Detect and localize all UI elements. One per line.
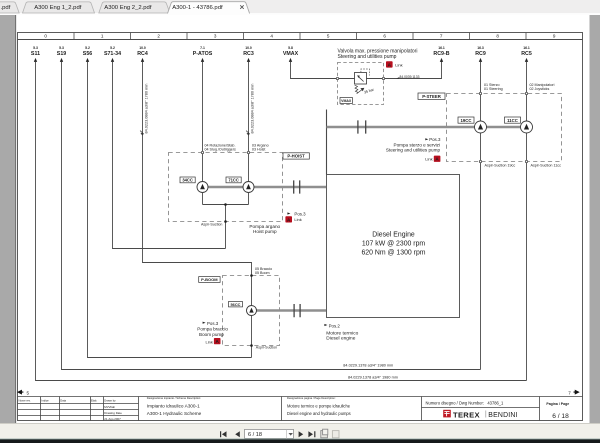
node RC9 label <box>475 46 486 57</box>
svg-text:05 Boom: 05 Boom <box>255 271 270 275</box>
svg-text:RC9-B: RC9-B <box>433 51 449 57</box>
svg-text:.pdf: .pdf <box>1 5 11 11</box>
svg-text:Elab.: Elab. <box>91 399 97 403</box>
svg-text:S19: S19 <box>57 51 66 57</box>
leader arrow relief hose <box>396 77 399 79</box>
svg-text:1: 1 <box>101 34 104 39</box>
link icon steering <box>425 156 440 162</box>
VMAX tag box <box>340 98 352 104</box>
svg-text:Pos.3: Pos.3 <box>207 321 219 326</box>
relief valve spring <box>355 85 359 93</box>
wire RC4 boom delivery <box>143 62 252 306</box>
tab 4 active <box>168 2 250 14</box>
hose leader tick RC4 <box>140 131 143 135</box>
pump 19CC tag <box>458 117 474 123</box>
steering pos3 note <box>386 137 441 152</box>
svg-text:Drawn by: Drawn by <box>104 399 116 403</box>
engine pos2 note <box>324 323 358 341</box>
tab 3 <box>99 2 170 13</box>
node RC9 arrow <box>479 58 482 62</box>
svg-text:Aspir-Suction: Aspir-Suction <box>201 223 222 227</box>
svg-text:P-HOIST: P-HOIST <box>287 154 305 159</box>
node RC4 label <box>137 46 148 57</box>
svg-text:Diesel Engine: Diesel Engine <box>372 231 415 238</box>
svg-text:Impianto idraulico A300-1: Impianto idraulico A300-1 <box>147 404 200 409</box>
svg-text:P-BOOM: P-BOOM <box>201 277 218 282</box>
svg-text:84.0229.1378 a3/4" 1980 mm: 84.0229.1378 a3/4" 1980 mm <box>348 376 398 380</box>
svg-text:6: 6 <box>383 34 386 39</box>
boom pos3 note <box>197 321 228 337</box>
wire VMAX relief line <box>291 62 442 79</box>
P-BOOM dashed box <box>223 276 280 346</box>
pump 11CC tag <box>505 117 521 123</box>
hoist tandem shaft between pumps <box>208 186 243 188</box>
wire 11CC suction <box>526 133 528 381</box>
svg-text:16.1: 16.1 <box>438 46 445 50</box>
pump group labels 04 <box>205 143 237 151</box>
svg-text:21.Ago.2007: 21.Ago.2007 <box>104 417 121 421</box>
wire S71-34 suction to hoist pumps <box>113 62 226 249</box>
node P-ATOS arrow <box>201 58 204 62</box>
link icon VMAX <box>386 61 403 67</box>
svg-text:7: 7 <box>440 34 443 39</box>
scheme description cell <box>147 396 202 416</box>
toolbar view icons <box>321 429 339 438</box>
page description cell <box>287 396 351 416</box>
svg-text:Diesel engine: Diesel engine <box>326 336 355 342</box>
wire 19CC suction <box>480 133 482 370</box>
hoist suction manifold <box>203 193 249 249</box>
pump 34CC <box>197 182 208 193</box>
hose leader tick RC3 <box>246 131 249 135</box>
svg-text:84.0039.1133: 84.0039.1133 <box>400 75 420 79</box>
node circle relief right <box>382 77 384 79</box>
pump 11CC <box>521 121 533 133</box>
svg-text:10.0: 10.0 <box>139 46 146 50</box>
svg-text:Diesel engine and hydraulic pu: Diesel engine and hydraulic pumps <box>287 411 351 416</box>
node RC4 arrow <box>141 58 144 62</box>
svg-text:11CC: 11CC <box>507 118 518 123</box>
svg-text:Link: Link <box>294 217 301 222</box>
svg-text:Designazione pagina / Page Des: Designazione pagina / Page Description: <box>287 396 336 400</box>
svg-text:Link: Link <box>206 339 213 344</box>
boom pump shaft <box>257 309 327 311</box>
tab bar background <box>0 0 600 13</box>
svg-text:7.1: 7.1 <box>200 46 205 50</box>
wire RC5 to 11CC pump <box>526 62 528 122</box>
page number cell <box>546 402 569 420</box>
node S11 arrow <box>34 58 37 62</box>
svg-text:Aspir-Suction 19cc: Aspir-Suction 19cc <box>485 163 516 167</box>
node RC5 label <box>521 46 532 57</box>
svg-text:84.0223.0884 a3/8" 1780 mm: 84.0223.0884 a3/8" 1780 mm <box>251 84 255 134</box>
wire S11 suction bus <box>36 62 527 381</box>
node circle P-STEER bottom left <box>479 160 481 162</box>
svg-text:3: 3 <box>214 34 217 39</box>
bottom dark strip <box>0 439 600 443</box>
svg-text:VMAX: VMAX <box>341 99 352 103</box>
svg-text:5.3: 5.3 <box>59 46 64 50</box>
node S71-34 label <box>104 46 121 57</box>
svg-text:03 Hoist: 03 Hoist <box>252 148 265 152</box>
svg-text:6 / 18: 6 / 18 <box>248 432 262 438</box>
svg-text:Numero disegno / Dwg Number:: Numero disegno / Dwg Number: 43786_1 <box>426 401 505 406</box>
node S71-34 arrow <box>111 58 114 62</box>
node S56 label <box>83 46 92 57</box>
wire RC9 to 19CC pump <box>480 62 482 122</box>
svg-text:16.1: 16.1 <box>523 46 530 50</box>
steering pump shaft <box>327 126 521 128</box>
sheet back arrow 5 <box>18 390 29 395</box>
P-BOOM tag box <box>199 277 220 283</box>
svg-text:RC4: RC4 <box>137 51 148 57</box>
link icon boom <box>206 338 221 344</box>
junction boom suction <box>250 344 253 347</box>
toolbar next-page button <box>299 431 304 437</box>
hoist pos3 note <box>287 212 306 217</box>
relief valve pilot dashes <box>361 69 370 76</box>
wire S19 suction bus <box>62 62 481 370</box>
svg-text:84.0223.0884 a3/8" 1780 mm: 84.0223.0884 a3/8" 1780 mm <box>144 84 148 134</box>
svg-text:A300 Eng 2_2.pdf: A300 Eng 2_2.pdf <box>104 5 152 11</box>
pump 71CC tag <box>226 177 241 183</box>
svg-text:Aspir-Suction: Aspir-Suction <box>256 346 277 350</box>
svg-text:S11: S11 <box>31 51 40 57</box>
svg-text:6 / 18: 6 / 18 <box>552 413 569 420</box>
junction boom supply <box>250 274 253 277</box>
svg-text:01 Steering: 01 Steering <box>484 87 503 91</box>
svg-text:S71-34: S71-34 <box>104 51 121 57</box>
hoist shaft coupling <box>294 180 300 193</box>
svg-text:Data: Data <box>60 399 66 403</box>
svg-text:RC5: RC5 <box>521 51 532 57</box>
node circle P-STEER top left <box>479 92 481 94</box>
svg-text:10.0: 10.0 <box>245 46 252 50</box>
svg-text:5.3: 5.3 <box>33 46 38 50</box>
svg-text:71CC: 71CC <box>228 178 239 183</box>
hoist pump shaft <box>254 186 326 188</box>
svg-text:4: 4 <box>270 34 273 39</box>
node VMAX label <box>283 46 299 57</box>
pump group labels 03 <box>252 143 269 151</box>
svg-text:0: 0 <box>44 34 47 39</box>
svg-text:84.0229.1378 a3/4" 1980 mm: 84.0229.1378 a3/4" 1980 mm <box>343 364 393 368</box>
node circle P-HOIST top left <box>201 151 203 153</box>
svg-text:A300-1 - 43786.pdf: A300-1 - 43786.pdf <box>172 5 223 11</box>
pump 19CC <box>475 121 487 133</box>
svg-text:A300 Eng 1_2.pdf: A300 Eng 1_2.pdf <box>34 5 82 11</box>
hoist pump note <box>249 224 280 234</box>
node S11 label <box>31 46 40 57</box>
pump 71CC <box>243 182 254 193</box>
P-HOIST dashed box <box>169 153 283 222</box>
node S19 arrow <box>60 58 63 62</box>
ruler ticks <box>74 33 526 40</box>
svg-text:19CC: 19CC <box>461 118 472 123</box>
node circle P-STEER top right <box>525 92 527 94</box>
node RC9-B arrow <box>440 58 443 62</box>
svg-text:Nome rev.: Nome rev. <box>19 399 31 403</box>
revision table values <box>104 405 122 421</box>
svg-text:Drawing Date: Drawing Date <box>104 411 122 415</box>
pump 56CC tag <box>229 302 243 307</box>
sheet next arrow 7 <box>568 390 578 395</box>
svg-text:5: 5 <box>27 390 30 395</box>
svg-text:Steering and utilities pump: Steering and utilities pump <box>386 148 441 153</box>
svg-text:TEREX: TEREX <box>453 410 480 419</box>
bottom toolbar <box>0 423 600 438</box>
steering shaft coupling <box>358 120 366 133</box>
terex bendini logo <box>443 410 517 420</box>
svg-text:56CC: 56CC <box>231 302 241 307</box>
P-STEER tag box <box>418 93 445 99</box>
svg-text:P-ATOS: P-ATOS <box>193 51 213 57</box>
svg-text:Hoist pump: Hoist pump <box>253 229 277 234</box>
svg-text:BENDINI: BENDINI <box>488 412 517 419</box>
wire P-ATOS to 34CC pump <box>202 62 204 182</box>
toolbar last-page button <box>308 431 315 437</box>
node P-ATOS label <box>193 46 213 57</box>
toolbar page field <box>245 429 294 438</box>
wire RC3 to 71CC pump <box>248 62 250 182</box>
svg-text:A300-1 Hydraulic Scheme: A300-1 Hydraulic Scheme <box>147 411 202 416</box>
svg-text:Steering and utilities pump: Steering and utilities pump <box>338 54 397 60</box>
node RC5 arrow <box>525 58 528 62</box>
relief valve text <box>338 49 418 61</box>
svg-text:7: 7 <box>568 390 571 395</box>
svg-text:16.3: 16.3 <box>477 46 484 50</box>
engine M1 <box>327 175 460 318</box>
svg-text:Pagina / Page: Pagina / Page <box>546 402 569 406</box>
node RC3 arrow <box>247 58 250 62</box>
relief valve V1 body <box>355 73 367 85</box>
wire S56 suction bus to boom pump <box>88 62 252 358</box>
P-HOIST tag box <box>283 153 309 159</box>
svg-text:Motore termico e pompe idrauli: Motore termico e pompe idrauliche <box>287 404 351 409</box>
P-STEER dashed box <box>447 94 562 162</box>
relief valve dashed box VMAX <box>338 63 384 105</box>
node circle P-HOIST bottom <box>224 220 227 223</box>
svg-text:8: 8 <box>496 34 499 39</box>
svg-text:9: 9 <box>553 34 556 39</box>
junction hoist manifold <box>224 203 227 206</box>
ruler numbers <box>44 34 556 39</box>
relief valve setting arrow <box>357 88 364 94</box>
node VMAX arrow <box>289 58 292 62</box>
svg-text:04 Slug./Outriggers: 04 Slug./Outriggers <box>205 148 237 152</box>
svg-text:34CC: 34CC <box>182 178 193 183</box>
svg-text:107 kW @ 2300 rpm: 107 kW @ 2300 rpm <box>362 241 426 248</box>
engine shaft vertical <box>326 110 328 175</box>
pump group labels 05 <box>255 267 272 275</box>
svg-text:5: 5 <box>327 34 330 39</box>
svg-text:MVVitali: MVVitali <box>104 405 115 409</box>
svg-text:Designazione impianto / Scheme: Designazione impianto / Scheme Descripti… <box>147 396 201 400</box>
svg-text:RC9: RC9 <box>475 51 486 57</box>
svg-text:P-STEER: P-STEER <box>422 94 442 99</box>
toolbar first-page button <box>220 431 227 437</box>
boom shaft coupling <box>294 304 300 317</box>
svg-text:VMAX: VMAX <box>283 51 299 57</box>
svg-text:Pos.3: Pos.3 <box>429 137 441 142</box>
title block frame <box>18 397 583 421</box>
svg-text:S56: S56 <box>83 51 92 57</box>
svg-text:Pompa braccio: Pompa braccio <box>197 327 228 332</box>
svg-text:02 Joysticks: 02 Joysticks <box>530 87 550 91</box>
pump group labels 01 sterzo <box>484 83 503 91</box>
node RC3 label <box>243 46 254 57</box>
svg-text:Motore termico: Motore termico <box>326 330 358 336</box>
toolbar prev-page button <box>235 431 240 437</box>
svg-text:Pos.2: Pos.2 <box>329 323 341 328</box>
svg-text:Indice: Indice <box>42 399 50 403</box>
svg-text:620 Nm @ 1300 rpm: 620 Nm @ 1300 rpm <box>361 250 425 257</box>
node circle P-HOIST top right <box>247 151 249 153</box>
svg-text:Pompa argano: Pompa argano <box>249 224 280 229</box>
svg-text:Aspir-Suction 11cc: Aspir-Suction 11cc <box>531 163 562 167</box>
svg-text:Boom pump: Boom pump <box>199 332 224 337</box>
pump group labels 02 manipolatori <box>530 83 555 91</box>
revision table headers <box>19 399 117 403</box>
svg-text:Pos.3: Pos.3 <box>294 212 306 217</box>
svg-text:2: 2 <box>157 34 160 39</box>
pump 34CC tag <box>180 177 195 183</box>
svg-text:5.2: 5.2 <box>110 46 115 50</box>
node circle relief left <box>336 77 338 79</box>
svg-text:RC3: RC3 <box>243 51 254 57</box>
node RC9-B label <box>433 46 449 57</box>
node S56 arrow <box>86 58 89 62</box>
node circle P-STEER bottom right <box>525 160 527 162</box>
svg-text:5.8: 5.8 <box>288 46 293 50</box>
tab 1 partial <box>0 2 19 13</box>
tab 2 <box>23 2 95 13</box>
pump 56CC <box>247 306 257 316</box>
svg-text:Link: Link <box>425 156 432 161</box>
node S19 label <box>57 46 66 57</box>
svg-text:Link: Link <box>395 62 402 67</box>
link icon hoist <box>285 216 301 222</box>
wire boom pump suction <box>251 316 253 358</box>
svg-text:5.2: 5.2 <box>85 46 90 50</box>
